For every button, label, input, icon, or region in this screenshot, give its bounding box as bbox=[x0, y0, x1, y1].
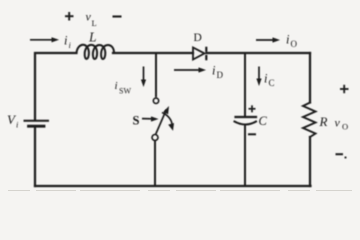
arrow i_SW (down, at switch) bbox=[141, 67, 146, 88]
wire: left rail below battery bbox=[34, 128, 36, 186]
wire: top rail right segment (diode to top-right corner) bbox=[207, 52, 311, 54]
svg-text:L: L bbox=[88, 30, 97, 45]
svg-text:i: i bbox=[286, 33, 290, 47]
svg-text:i: i bbox=[212, 64, 216, 78]
battery Vi plates bbox=[25, 120, 49, 122]
arrow S pointer bbox=[142, 116, 159, 121]
arrow i_C (down, at capacitor) bbox=[256, 67, 261, 87]
wire: right rail top (to resistor) bbox=[309, 53, 311, 103]
wire: switch branch to bottom rail bbox=[154, 141, 156, 186]
arrow i_D (below diode) bbox=[174, 67, 206, 72]
switch S blade bbox=[156, 111, 166, 135]
wire: right rail bottom (resistor to bottom rail) bbox=[309, 137, 311, 186]
svg-text:D: D bbox=[217, 70, 224, 80]
wire: capacitor branch from top rail bbox=[244, 53, 246, 116]
label - (output polarity) bbox=[336, 153, 344, 155]
resistor R zigzag bbox=[303, 103, 316, 138]
label - (v_L polarity) bbox=[113, 15, 122, 17]
capacitor C plates bbox=[236, 116, 257, 118]
svg-text:SW: SW bbox=[119, 87, 131, 96]
inductor L bbox=[77, 45, 115, 59]
label + (capacitor) bbox=[249, 105, 256, 112]
svg-text:R: R bbox=[319, 114, 328, 129]
svg-text:S: S bbox=[133, 114, 140, 128]
label + (v_L polarity) bbox=[65, 12, 74, 21]
svg-text:D: D bbox=[194, 32, 202, 44]
svg-text:C: C bbox=[259, 114, 268, 128]
wire: switch branch from top rail bbox=[155, 53, 157, 96]
svg-text:v: v bbox=[335, 116, 341, 130]
switch blade motion arrow up bbox=[163, 106, 169, 114]
arrow i_i bbox=[30, 37, 59, 42]
svg-text:i: i bbox=[264, 72, 268, 86]
svg-text:O: O bbox=[291, 39, 298, 49]
label + (output polarity) bbox=[340, 85, 349, 93]
label - (capacitor) bbox=[248, 133, 256, 135]
svg-text:C: C bbox=[269, 78, 275, 88]
wire: top rail left segment (Vi corner to inductor) bbox=[35, 53, 77, 120]
scan artifact line at bottom bbox=[8, 190, 352, 192]
wire: bottom rail bbox=[35, 185, 311, 187]
switch S bottom contact bbox=[152, 135, 158, 141]
svg-text:L: L bbox=[92, 18, 97, 28]
wire: top rail middle segment (inductor to diode, through switch node) bbox=[113, 52, 193, 54]
svg-text:i: i bbox=[115, 80, 118, 92]
switch S top contact bbox=[153, 98, 158, 103]
arrow i_O (top right) bbox=[256, 37, 280, 42]
switch blade motion arrow arc down bbox=[162, 113, 174, 131]
svg-text:i: i bbox=[64, 34, 68, 48]
diode D bbox=[193, 48, 205, 60]
svg-text:O: O bbox=[342, 122, 348, 132]
wire: capacitor branch to bottom rail bbox=[244, 126, 246, 186]
